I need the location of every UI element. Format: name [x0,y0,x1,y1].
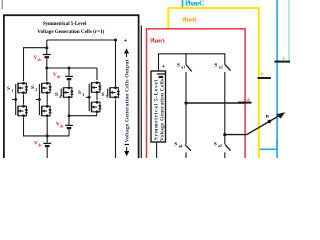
svg-text:dc: dc [57,75,61,79]
svg-text:+: + [162,63,166,70]
svg-text:2: 2 [35,88,37,92]
svg-text:Phase B: Phase B [182,17,197,23]
svg-text:S: S [102,92,105,98]
svg-text:S: S [215,63,218,69]
svg-text:a3: a3 [219,65,223,69]
svg-text:Symmetrical 5-Level: Symmetrical 5-Level [43,22,87,27]
svg-text:Voltage Generation Cells: Voltage Generation Cells [160,79,166,141]
svg-text:a: a [247,97,250,103]
svg-text:S: S [78,90,81,96]
svg-text:a4: a4 [179,144,183,148]
svg-text:Phase C: Phase C [185,0,205,7]
svg-text:S: S [55,92,58,98]
svg-text:b: b [261,71,264,77]
svg-text:dc: dc [38,143,42,147]
svg-text:a2: a2 [218,144,222,148]
svg-text:S: S [177,63,180,69]
svg-text:S: S [31,85,34,91]
svg-text:S: S [174,142,177,148]
svg-text:a1: a1 [181,65,185,69]
svg-text:Voltage Generation Cells Outpu: Voltage Generation Cells Output [125,59,131,142]
svg-text:dc: dc [60,124,64,128]
svg-text:S: S [7,86,10,92]
svg-text:S: S [214,141,217,147]
svg-text:4: 4 [59,95,61,99]
svg-text:+: + [124,38,128,45]
svg-text:5: 5 [106,95,108,99]
svg-text:dc: dc [38,58,42,62]
svg-text:Voltage Generation Cells (r=1): Voltage Generation Cells (r=1) [37,30,104,35]
svg-text:3: 3 [82,93,84,97]
svg-text:1: 1 [11,89,13,93]
svg-text:Phase A: Phase A [150,38,166,44]
